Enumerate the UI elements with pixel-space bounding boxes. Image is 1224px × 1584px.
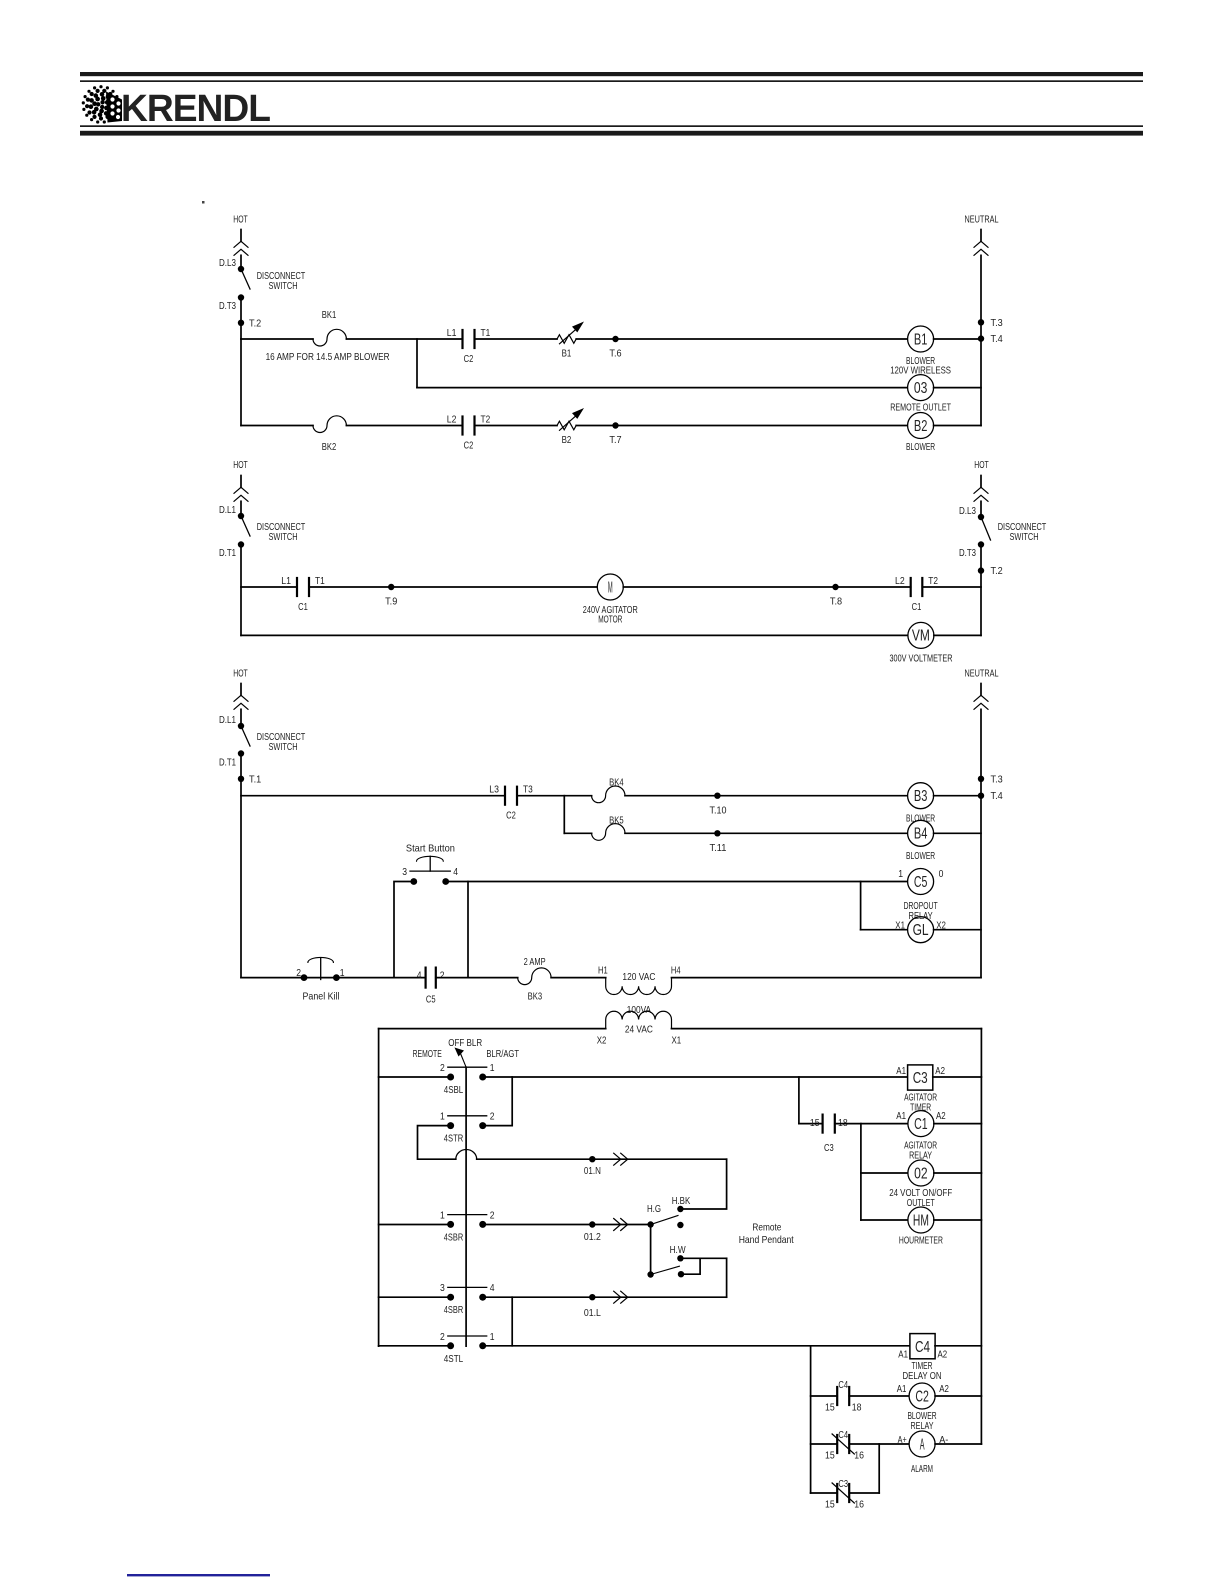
svg-text:03: 03: [914, 380, 928, 397]
svg-text:3: 3: [402, 866, 407, 878]
svg-text:Remote: Remote: [752, 1222, 781, 1234]
svg-text:A1: A1: [898, 1348, 908, 1360]
svg-text:T.11: T.11: [710, 842, 727, 854]
svg-text:T.7: T.7: [609, 434, 621, 446]
svg-text:H4: H4: [671, 964, 681, 976]
svg-text:2: 2: [440, 1331, 445, 1343]
svg-text:NEUTRAL: NEUTRAL: [965, 214, 999, 226]
svg-text:SWITCH: SWITCH: [1009, 531, 1038, 543]
svg-text:4: 4: [453, 866, 458, 878]
svg-text:BLR/AGT: BLR/AGT: [486, 1048, 519, 1060]
svg-text:T2: T2: [481, 414, 491, 426]
svg-text:T.3: T.3: [991, 773, 1003, 785]
svg-text:01.L: 01.L: [584, 1307, 601, 1319]
svg-text:X1: X1: [671, 1035, 681, 1047]
svg-text:T.3: T.3: [991, 317, 1003, 329]
svg-text:C5: C5: [914, 874, 928, 891]
svg-text:BK5: BK5: [609, 814, 624, 826]
svg-text:Hand Pendant: Hand Pendant: [739, 1234, 794, 1246]
svg-text:REMOTE: REMOTE: [413, 1048, 442, 1060]
svg-text:X1: X1: [895, 919, 905, 931]
svg-text:H1: H1: [598, 964, 608, 976]
svg-text:2: 2: [490, 1209, 495, 1221]
svg-text:16 AMP FOR 14.5 AMP BLOWER: 16 AMP FOR 14.5 AMP BLOWER: [266, 351, 390, 363]
svg-text:24 VAC: 24 VAC: [625, 1024, 653, 1036]
svg-text:15: 15: [825, 1499, 835, 1511]
svg-text:REMOTE OUTLET: REMOTE OUTLET: [890, 402, 951, 414]
svg-text:A: A: [920, 1436, 925, 1453]
svg-text:Panel Kill: Panel Kill: [303, 991, 340, 1003]
svg-text:SWITCH: SWITCH: [268, 531, 297, 543]
svg-text:HOT: HOT: [233, 214, 248, 226]
svg-text:B2: B2: [562, 434, 572, 446]
svg-text:OFF BLR: OFF BLR: [448, 1037, 482, 1049]
svg-text:BLOWER: BLOWER: [906, 441, 935, 453]
svg-text:L1: L1: [447, 327, 457, 339]
svg-text:A+: A+: [898, 1434, 907, 1446]
svg-text:T2: T2: [928, 575, 938, 587]
svg-text:2: 2: [440, 969, 445, 981]
svg-text:A2: A2: [936, 1110, 946, 1122]
svg-text:T.4: T.4: [991, 333, 1003, 345]
svg-text:T1: T1: [315, 575, 325, 587]
svg-text:D.T3: D.T3: [959, 547, 976, 559]
svg-text:MOTOR: MOTOR: [598, 614, 622, 626]
svg-text:A1: A1: [896, 1110, 906, 1122]
svg-text:01.N: 01.N: [584, 1165, 601, 1177]
svg-text:C2: C2: [915, 1388, 929, 1405]
svg-text:C4: C4: [915, 1339, 930, 1356]
svg-text:120 VAC: 120 VAC: [622, 971, 655, 983]
svg-text:BK4: BK4: [609, 777, 624, 789]
svg-text:X2: X2: [597, 1035, 607, 1047]
svg-text:D.T1: D.T1: [219, 757, 236, 769]
svg-text:L3: L3: [489, 784, 499, 796]
svg-text:A2: A2: [938, 1348, 948, 1360]
svg-text:C4: C4: [838, 1429, 848, 1441]
svg-text:4SBR: 4SBR: [444, 1304, 464, 1316]
svg-text:T.1: T.1: [249, 773, 261, 785]
svg-text:D.T3: D.T3: [219, 300, 236, 312]
svg-text:C2: C2: [464, 440, 474, 452]
svg-text:DELAY ON: DELAY ON: [903, 1370, 942, 1382]
svg-text:1: 1: [440, 1111, 445, 1123]
svg-text:KRENDL: KRENDL: [121, 88, 271, 130]
svg-text:HOT: HOT: [233, 668, 248, 680]
svg-text:A2: A2: [935, 1065, 945, 1077]
svg-text:1: 1: [898, 868, 903, 880]
svg-text:15: 15: [825, 1402, 835, 1414]
svg-text:C5: C5: [426, 994, 436, 1006]
svg-text:T.10: T.10: [710, 804, 727, 816]
svg-text:C3: C3: [913, 1070, 928, 1087]
svg-text:H.G: H.G: [647, 1203, 661, 1215]
svg-text:B3: B3: [914, 788, 928, 805]
svg-text:T.4: T.4: [991, 790, 1003, 802]
svg-text:A2: A2: [939, 1383, 949, 1395]
svg-text:4STL: 4STL: [444, 1353, 464, 1365]
svg-text:D.L1: D.L1: [219, 714, 236, 726]
svg-text:L2: L2: [447, 414, 457, 426]
svg-text:H.BK: H.BK: [672, 1195, 691, 1207]
svg-text:A-: A-: [939, 1434, 949, 1446]
svg-text:H.W: H.W: [670, 1244, 686, 1256]
svg-text:B2: B2: [914, 418, 928, 435]
svg-text:16: 16: [854, 1450, 864, 1462]
svg-text:C1: C1: [912, 601, 922, 613]
svg-text:4SBL: 4SBL: [444, 1084, 464, 1096]
svg-text:C4: C4: [838, 1379, 848, 1391]
svg-text:C2: C2: [464, 353, 474, 365]
svg-text:A1: A1: [896, 1065, 906, 1077]
svg-text:HOURMETER: HOURMETER: [899, 1235, 943, 1247]
svg-text:BK1: BK1: [322, 309, 337, 321]
svg-text:X2: X2: [936, 919, 946, 931]
svg-text:T.9: T.9: [385, 596, 397, 608]
svg-text:100VA: 100VA: [627, 1004, 651, 1016]
svg-text:T.6: T.6: [609, 347, 621, 359]
svg-text:C3: C3: [824, 1142, 834, 1154]
svg-text:D.L3: D.L3: [219, 257, 236, 269]
svg-text:2 AMP: 2 AMP: [524, 956, 546, 968]
svg-text:HOT: HOT: [233, 459, 248, 471]
svg-text:15: 15: [825, 1450, 835, 1462]
svg-text:1: 1: [490, 1331, 495, 1343]
svg-text:C2: C2: [506, 810, 516, 822]
svg-text:C1: C1: [298, 601, 308, 613]
svg-text:T.2: T.2: [991, 565, 1003, 577]
svg-text:T3: T3: [523, 784, 533, 796]
svg-text:ALARM: ALARM: [911, 1463, 933, 1475]
svg-text:2: 2: [490, 1111, 495, 1123]
svg-text:D.L3: D.L3: [959, 505, 976, 517]
svg-text:BK2: BK2: [322, 441, 337, 453]
svg-text:BLOWER: BLOWER: [906, 850, 935, 862]
svg-text:VM: VM: [912, 628, 930, 645]
svg-text:T1: T1: [481, 327, 491, 339]
svg-text:4STR: 4STR: [444, 1133, 464, 1145]
svg-text:SWITCH: SWITCH: [268, 280, 297, 292]
svg-text:GL: GL: [913, 922, 929, 939]
svg-text:B4: B4: [914, 826, 928, 843]
svg-text:2: 2: [296, 967, 301, 979]
svg-text:3: 3: [440, 1282, 445, 1294]
svg-text:HOT: HOT: [974, 459, 989, 471]
svg-text:D.L1: D.L1: [219, 504, 236, 516]
svg-text:15: 15: [810, 1117, 820, 1129]
svg-text:1: 1: [490, 1062, 495, 1074]
svg-text:300V VOLTMETER: 300V VOLTMETER: [890, 653, 953, 665]
svg-text:1: 1: [340, 967, 345, 979]
svg-text:B1: B1: [914, 331, 928, 348]
svg-text:2: 2: [440, 1062, 445, 1074]
svg-text:01.2: 01.2: [584, 1231, 601, 1243]
svg-text:4SBR: 4SBR: [444, 1231, 464, 1243]
svg-text:16: 16: [854, 1499, 864, 1511]
svg-text:L1: L1: [281, 575, 291, 587]
svg-text:C1: C1: [914, 1116, 928, 1133]
svg-text:T.2: T.2: [249, 317, 261, 329]
svg-text:RELAY: RELAY: [909, 910, 933, 922]
svg-text:4: 4: [417, 969, 422, 981]
svg-text:D.T1: D.T1: [219, 547, 236, 559]
svg-text:Start Button: Start Button: [406, 843, 455, 855]
svg-text:BK3: BK3: [528, 991, 543, 1003]
svg-text:4: 4: [490, 1282, 495, 1294]
svg-text:B1: B1: [562, 347, 572, 359]
svg-text:C3: C3: [838, 1478, 848, 1490]
svg-text:M: M: [608, 579, 613, 596]
svg-text:A1: A1: [897, 1383, 907, 1395]
svg-text:T.8: T.8: [830, 596, 842, 608]
svg-text:L2: L2: [895, 575, 905, 587]
svg-text:1: 1: [440, 1209, 445, 1221]
svg-text:SWITCH: SWITCH: [268, 741, 297, 753]
svg-text:HM: HM: [913, 1212, 929, 1229]
svg-text:02: 02: [914, 1165, 928, 1182]
svg-text:18: 18: [852, 1402, 862, 1414]
svg-text:NEUTRAL: NEUTRAL: [965, 668, 999, 680]
svg-text:0: 0: [939, 868, 944, 880]
